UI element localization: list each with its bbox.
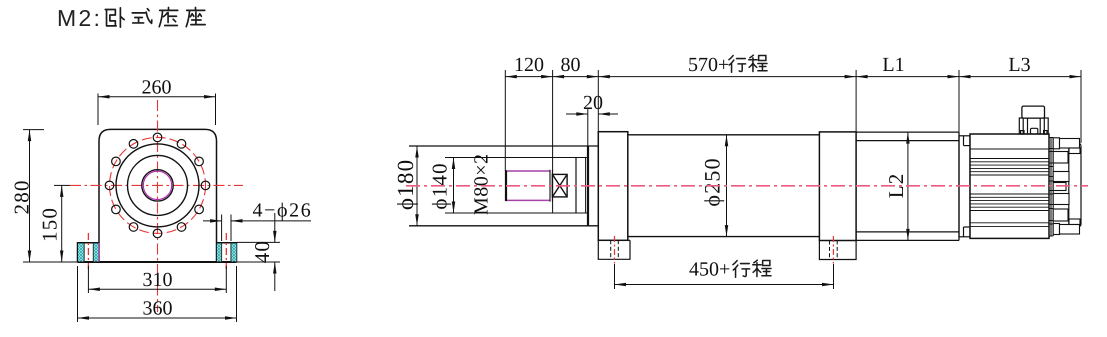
right foot — [217, 243, 237, 262]
dim text 80 — [561, 58, 579, 71]
horizontal centerline black stub — [54, 184, 70, 186]
座 — [186, 7, 205, 26]
pink main centerline — [406, 185, 1088, 187]
dim 310 — [88, 266, 226, 293]
dim 40 — [237, 213, 281, 291]
dim text 120 — [516, 58, 543, 71]
vertical centerline (red dash-dot) — [157, 100, 159, 312]
CJK 行程 for 450 dim — [733, 260, 771, 277]
horizontal centerline (red dash-dot) — [70, 184, 243, 186]
底 — [159, 7, 177, 26]
foot hole edges — [84, 243, 231, 262]
dim phi140 — [453, 158, 455, 214]
magenta edge on left foot — [98, 243, 100, 262]
foot hole centerline right (red) — [225, 233, 227, 269]
title CJK 卧式底座 (drawn strokes) — [105, 7, 205, 27]
left foot — [78, 243, 100, 262]
anti-rotation X box — [552, 174, 567, 197]
gland inner line — [585, 158, 587, 214]
dim 280 — [23, 130, 78, 262]
threaded rod M80x2 — [506, 170, 552, 202]
phi250 tube — [628, 135, 820, 237]
rear foot — [819, 241, 856, 260]
dim 450+stroke — [615, 264, 834, 289]
outer flange circle — [116, 144, 199, 227]
rear connector blocks — [1053, 138, 1080, 235]
rear foot centerline — [832, 236, 834, 264]
rear connector plate ribs — [1049, 138, 1053, 237]
motor body — [970, 134, 1049, 238]
label M80x2 — [474, 155, 487, 214]
motor fins — [970, 149, 1049, 227]
rear foot hidden hole — [830, 241, 838, 260]
gland step line — [575, 158, 577, 214]
dim L2 — [907, 132, 909, 240]
top connector upper block — [1022, 106, 1045, 118]
rear flange — [819, 132, 856, 241]
tube end cap — [587, 146, 589, 226]
dim text L3 — [1009, 58, 1030, 71]
rear connector plate — [1051, 138, 1053, 237]
bolt circle (red dashed) — [110, 137, 206, 233]
dim text 570+stroke — [689, 58, 728, 71]
式 — [132, 9, 152, 24]
front foot hidden hole — [611, 240, 619, 259]
rear big block — [1069, 143, 1081, 227]
rod phi140 lines — [445, 158, 588, 214]
left foot hatches — [78, 243, 237, 261]
base bottom edge — [78, 261, 237, 263]
卧 — [105, 8, 124, 27]
front foot centerline — [614, 236, 616, 264]
dim 20 — [566, 108, 618, 146]
dim text L1 — [883, 58, 903, 71]
title text M2: — [59, 10, 98, 26]
CJK 行程 for 570 dim — [729, 55, 767, 72]
base body outline — [99, 129, 217, 262]
L2 tube — [856, 132, 959, 240]
top dimension chain — [505, 70, 1081, 213]
magenta pilot circle — [143, 171, 171, 199]
front flange — [598, 132, 628, 241]
dim phi250 — [726, 135, 728, 237]
motor adapter ring — [959, 136, 970, 237]
dim 150 — [61, 185, 63, 262]
dim 4-phi26 — [203, 215, 311, 242]
top connector lower housing — [1019, 118, 1048, 134]
middle circle — [128, 155, 188, 215]
front foot — [598, 240, 630, 259]
dim 360 — [78, 266, 237, 322]
dim 260 — [98, 94, 216, 126]
12 bolt holes — [105, 133, 210, 238]
foot hole centerline left (red) — [87, 233, 89, 269]
inner circle — [142, 170, 173, 201]
dim phi180 — [416, 146, 418, 226]
phi180 housing lines — [409, 146, 598, 226]
